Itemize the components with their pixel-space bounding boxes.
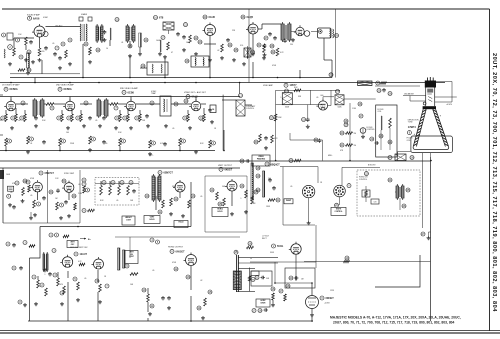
wire right tall bus: [430, 157, 432, 321]
tube V15: [60, 255, 72, 267]
wire video B+ rail: [0, 160, 431, 162]
resistor IF sub 204: [203, 114, 206, 122]
ground IF 68: [66, 126, 70, 130]
capacitor C9: [226, 38, 230, 42]
svg-text:HOLD: HOLD: [149, 219, 155, 221]
ref bubble int1: [111, 181, 115, 185]
wire V3: [258, 24, 281, 29]
svg-text:17BP4: 17BP4: [408, 125, 416, 129]
capacitor IF low a: [42, 140, 46, 144]
svg-text:SYNC SEP: SYNC SEP: [64, 173, 75, 175]
left margin stubs: [0, 95, 3, 135]
svg-text:100: 100: [66, 132, 69, 134]
ground IF 36: [34, 124, 38, 128]
resistor RD8: [147, 294, 150, 302]
focus assembly box: [376, 105, 397, 157]
ground T3: [128, 52, 142, 58]
capacitor CC2: [56, 189, 60, 193]
ref bubble rail A: [329, 73, 333, 77]
left margin cap D: [12, 266, 23, 270]
PT bottom refs: [252, 308, 268, 312]
ref bubble crt: [407, 131, 411, 135]
ground IF 212: [210, 120, 214, 124]
ref bubble IF sub 25: [20, 116, 24, 120]
ground vol: [242, 62, 246, 66]
svg-text:6W4GT: 6W4GT: [326, 297, 335, 300]
resistor IF low 90: [89, 136, 92, 144]
svg-text:220: 220: [42, 51, 45, 53]
ref bubble IF sub 128: [123, 116, 127, 120]
capacitor IF low b: [102, 140, 106, 144]
cap cluster crt: [377, 88, 392, 96]
hatch box B plus: [388, 154, 414, 161]
ref bubbles V3: [264, 36, 274, 48]
ground V1 right: [38, 58, 73, 70]
ground V1 left: [8, 58, 35, 66]
capacitor CD3: [161, 296, 165, 300]
value label 43: [268, 178, 271, 180]
ref bubble int0: [102, 181, 106, 185]
brightness pot: [282, 89, 292, 109]
svg-text:.02: .02: [217, 50, 219, 52]
value label 17: [142, 120, 146, 122]
svg-text:250: 250: [290, 44, 293, 46]
resistor R6: [89, 47, 92, 55]
bleeder dashed box: [357, 170, 420, 216]
boxed resistor bleeder 1: [362, 186, 370, 202]
label video out: [321, 95, 335, 99]
capacitor C4: [58, 56, 62, 60]
svg-text:OSC ADJ: OSC ADJ: [55, 24, 62, 27]
value label 13: [42, 120, 46, 122]
resistor RC8: [216, 192, 219, 200]
resistor R2: [13, 48, 16, 56]
horiz drive control: [358, 81, 387, 86]
capacitor CC10: [268, 178, 272, 182]
ref bubbles D left: [32, 273, 109, 295]
resistor IF sub 16: [15, 114, 18, 122]
svg-text:6AU6: 6AU6: [33, 17, 40, 20]
capacitor IF 210: [208, 108, 212, 112]
svg-text:MULL: MULL: [149, 155, 154, 157]
capacitor IF 36: [34, 116, 38, 120]
hold control 2: [174, 221, 188, 228]
wire integrator: [95, 181, 139, 186]
label V18: [320, 296, 334, 305]
value label 14: [66, 132, 69, 134]
value label 27: [298, 96, 302, 98]
CRT bell bottom: [413, 147, 449, 150]
ground IF 116: [114, 126, 118, 130]
tube V2 6AU6: [203, 23, 216, 36]
label 4 band: [79, 13, 92, 21]
value label 34: [78, 184, 80, 186]
svg-text:DRIVE: DRIVE: [261, 302, 266, 304]
svg-text:600: 600: [321, 95, 324, 97]
svg-text:6AL5: 6AL5: [192, 96, 199, 99]
value label 45: [320, 182, 323, 184]
ref bubble T2: [84, 42, 100, 52]
capacitor CC1: [8, 186, 14, 191]
svg-text:6AQ5: 6AQ5: [247, 16, 254, 19]
value label 5: [156, 40, 161, 42]
resistor IF low 28: [27, 136, 30, 144]
label row vert osc: [70, 247, 88, 249]
caption line 1: [330, 316, 461, 320]
value label 0: [18, 34, 22, 36]
svg-text:RECT: RECT: [262, 238, 267, 240]
wire video out coupling: [328, 90, 331, 105]
svg-text:6K6GT: 6K6GT: [225, 168, 233, 171]
wire audio section divider: [335, 9, 337, 78]
junction dots right rail: [275, 160, 432, 162]
tube V16: [92, 257, 104, 269]
vert osc trans small: [43, 252, 48, 272]
value label 52: [172, 262, 177, 264]
value label 7: [186, 42, 189, 44]
svg-text:CONTROL: CONTROL: [246, 108, 254, 110]
ground V18: [310, 309, 314, 317]
svg-text:WIDTH: WIDTH: [336, 209, 342, 211]
svg-text:.01: .01: [121, 42, 123, 44]
junction dot D1: [77, 226, 79, 228]
label sound IF amp: [27, 14, 49, 21]
wire bleeder: [395, 192, 400, 210]
rail D top: [250, 261, 316, 263]
resistor IF sub 140: [139, 114, 142, 122]
wire socket1 down: [307, 198, 311, 225]
resistor RB13: [340, 143, 356, 147]
value label 40: [200, 196, 202, 198]
svg-text:6SN7GT: 6SN7GT: [45, 172, 55, 175]
resistor RC1: [22, 188, 25, 196]
resistor RC3: [33, 200, 41, 208]
vert output transformer: [118, 248, 125, 270]
value label 44: [290, 186, 292, 188]
capacitor CC int: [132, 189, 136, 193]
svg-text:.05: .05: [116, 200, 118, 202]
value label 30: [340, 150, 344, 152]
value label 39: [172, 186, 177, 188]
label V19: [262, 236, 283, 249]
ref bubbles V2: [194, 36, 202, 44]
svg-text:.05: .05: [158, 192, 160, 194]
svg-text:HOLD: HOLD: [178, 222, 184, 224]
capacitor C3: [53, 52, 57, 56]
ref bubble IF sub 204: [199, 116, 203, 120]
video block label: [252, 155, 270, 166]
value label 9: [232, 30, 236, 32]
rotated model list: [491, 53, 497, 312]
svg-text:.05: .05: [316, 97, 318, 99]
value labels sync: [12, 183, 82, 200]
volume control: [240, 45, 255, 59]
value label 46: [44, 274, 45, 276]
resistor IF sub 188: [187, 114, 190, 122]
tube V3 6AQ5: [246, 22, 258, 34]
left edge hatch: [0, 170, 11, 179]
value label 25: [200, 143, 204, 145]
resistor RC int3: [127, 186, 130, 196]
ground V2: [182, 48, 198, 56]
ref bubble IF low 6: [7, 139, 11, 143]
svg-text:20UT, 20X, 70, 72, 73, 700, 70: 20UT, 20X, 70, 72, 73, 700, 701, 712, 71…: [491, 53, 497, 312]
value label 1: [52, 43, 54, 45]
svg-text:4.5MC: 4.5MC: [43, 17, 49, 19]
wire damper box: [375, 255, 420, 287]
svg-text:M: M: [252, 279, 254, 281]
resistor RC1b: [23, 179, 30, 192]
value label 56: [330, 290, 335, 292]
ground right bus: [421, 232, 431, 240]
damper filter box: [285, 268, 315, 288]
wire D drops: [68, 282, 312, 321]
CRT neck: [426, 88, 435, 107]
socket V14 damper: [334, 185, 346, 205]
label IF stage 3: [120, 87, 139, 95]
vert osc control box: [67, 241, 78, 248]
ref bubble IF low 150: [151, 141, 155, 145]
resistor RD7: [130, 273, 138, 276]
value label 16: [118, 132, 122, 134]
svg-text:6AU6: 6AU6: [209, 16, 216, 19]
ref bubble IF sub 81: [76, 116, 80, 120]
value label 48: [84, 278, 86, 280]
svg-text:10: 10: [106, 48, 108, 50]
value label 28: [316, 97, 318, 99]
ref bubbles horiz: [210, 184, 258, 206]
label IF stage 2: [56, 84, 75, 92]
ground D right: [271, 303, 275, 307]
value label 50: [130, 284, 134, 286]
svg-text:.05: .05: [200, 196, 202, 198]
resistor IF sub 81: [80, 114, 83, 122]
resistor IF sub 62: [61, 114, 64, 122]
width control: [331, 203, 346, 215]
value label 57: [149, 155, 154, 157]
wire T3: [130, 41, 140, 52]
resistor R9: [221, 43, 238, 52]
ground V2 right: [220, 56, 236, 62]
capacitor CD1: [43, 268, 47, 272]
value label 51: [152, 270, 154, 272]
svg-text:HORIZ: HORIZ: [261, 300, 266, 302]
svg-text:.05: .05: [290, 186, 292, 188]
contrast control: [236, 83, 255, 117]
value label 4: [121, 42, 123, 44]
resistor RBx: [254, 134, 278, 150]
ref bubbles D mid: [125, 264, 212, 310]
caption line 2: [333, 321, 455, 325]
capacitor C7: [176, 32, 180, 36]
speaker SP1: [318, 28, 332, 38]
capacitor CC11: [272, 186, 276, 190]
flyback transformer primary: [251, 163, 253, 200]
label 45mc trap: [151, 91, 157, 95]
value label 53: [200, 280, 202, 282]
label damper: [347, 184, 351, 188]
ref bubble IF low 180: [181, 139, 185, 143]
value label 23: [105, 143, 107, 145]
resistor RD9: [204, 298, 207, 306]
ref bubble video block: [289, 159, 301, 163]
resistor IF low 210: [209, 140, 212, 148]
resistor R10: [263, 44, 266, 52]
power transformer winding: [233, 271, 241, 290]
resistor RD4: [63, 286, 66, 294]
wire video mid rail: [276, 104, 322, 106]
junction dots IF: [5, 82, 240, 152]
CRT anode lead right: [435, 97, 457, 106]
resistor RC4: [56, 202, 64, 210]
focus pot: [335, 90, 344, 109]
tube V5 IF amp: [63, 99, 75, 111]
label audio det: [241, 15, 254, 19]
resistor R5: [18, 68, 31, 72]
ref bubbles V1 right: [55, 38, 72, 50]
label vert osc D: [49, 233, 91, 241]
resistor RC int0: [100, 186, 103, 196]
resistor RC4b: [74, 203, 77, 210]
value label 8: [217, 50, 219, 52]
svg-text:.05: .05: [18, 120, 20, 122]
coil L4: [160, 40, 161, 52]
wire D left: [38, 270, 98, 282]
cap audio 2: [283, 38, 295, 43]
resistor RB11: [269, 114, 282, 121]
ground D mid: [148, 306, 205, 320]
label flyback low: [252, 203, 271, 208]
svg-text:470: 470: [88, 52, 91, 54]
wire chassis box top jog: [40, 226, 191, 228]
label vert osc: [158, 171, 173, 175]
svg-text:470: 470: [60, 284, 63, 286]
resistor IF low 120: [119, 138, 122, 146]
ref bubbles IF row: [21, 99, 188, 110]
wire socket2: [342, 167, 380, 185]
resistor RC6: [170, 198, 173, 206]
wire vert osc: [156, 182, 191, 227]
vert osc transformer: [152, 174, 161, 202]
tube V1 6AU6: [32, 24, 48, 37]
ground IF 131: [129, 126, 133, 130]
svg-text:20U7, 800, 70, 71, 72, 700, 70: 20U7, 800, 70, 71, 72, 700, 708, 712, 71…: [333, 321, 455, 325]
value label 26: [280, 97, 281, 99]
label sync sep: [64, 173, 75, 175]
det box: [163, 22, 174, 34]
svg-text:DAMP: DAMP: [286, 199, 292, 202]
CRT anode lead top: [436, 82, 452, 98]
wire IF strip lower rail: [0, 150, 215, 152]
wire V2: [204, 36, 216, 62]
filter box 2: [251, 271, 272, 286]
ground IF 166: [164, 124, 168, 128]
svg-text:HOLD: HOLD: [217, 211, 223, 213]
ref bubble IF low 60: [61, 139, 65, 143]
ref bubble IF sub 16: [11, 116, 15, 120]
svg-text:.01: .01: [30, 143, 32, 145]
IF can T6: [33, 98, 44, 118]
wire horiz osc: [205, 176, 247, 232]
ground D left: [34, 298, 102, 306]
svg-text:5U4G: 5U4G: [277, 245, 283, 248]
CRT funnel: [413, 109, 448, 147]
value label 36: [116, 200, 118, 202]
resistor RD11: [284, 294, 287, 301]
svg-text:2ND VIDEO IF AMP: 2ND VIDEO IF AMP: [56, 84, 75, 87]
value label 31: [10, 192, 12, 194]
value label 32: [30, 178, 35, 180]
ref bubble int2: [120, 181, 124, 185]
label video det: [184, 91, 207, 99]
value label 49: [104, 276, 107, 278]
value label 22: [70, 143, 75, 145]
ground outside box: [18, 300, 27, 307]
svg-text:TRAP: TRAP: [151, 92, 157, 95]
resistor RD2: [45, 288, 48, 296]
ref bubbles V1 left: [16, 38, 32, 59]
horiz hold control: [212, 208, 228, 217]
wire chassis box left jog: [30, 227, 41, 259]
capacitor C10: [268, 32, 272, 36]
resistor RD1: [37, 280, 40, 288]
wire band A low rail: [10, 73, 80, 75]
svg-text:MULL: MULL: [328, 155, 333, 157]
resistor IF low 150: [149, 140, 152, 148]
boxed label left: [284, 199, 293, 204]
svg-text:COIL: COIL: [378, 111, 382, 113]
PT top ref: [247, 242, 254, 249]
output transformer T5: [330, 29, 339, 38]
cap right: [370, 137, 379, 145]
svg-text:4 BAND: 4 BAND: [81, 13, 88, 16]
wire B+ rail band A: [10, 77, 332, 79]
tube V7 6AL5 det: [189, 99, 201, 111]
IF can T7: [97, 98, 108, 118]
IF can T4: [281, 22, 291, 42]
value label 15: [95, 120, 97, 122]
wire IF verticals: [6, 108, 204, 114]
capacitor CC5: [42, 196, 46, 200]
label osc adj: [55, 24, 62, 27]
cap mid right: [314, 138, 321, 143]
power transformer core: [234, 250, 238, 292]
tube V10 sync sep: [62, 181, 74, 193]
ground IF 84: [82, 124, 86, 128]
boxed resistor bleeder 2: [371, 199, 379, 204]
ref bubbles bleeder: [388, 178, 410, 208]
svg-text:6T8: 6T8: [159, 17, 164, 20]
resistor RC int1: [109, 186, 112, 196]
value label 55: [270, 252, 275, 254]
value label 54: [250, 258, 253, 260]
resistor RC12: [268, 198, 280, 202]
resistor IF low 180: [179, 138, 182, 146]
capacitor C2: [44, 46, 48, 50]
capacitor CD2: [48, 272, 52, 276]
capacitor CD4: [167, 296, 171, 300]
capacitor IF 104: [102, 116, 106, 120]
discr transformer: [140, 62, 168, 75]
value label 10: [262, 52, 265, 54]
wire PT secondary: [236, 258, 278, 292]
b boost label: [368, 165, 376, 167]
svg-text:COIL: COIL: [407, 140, 411, 142]
ground det: [158, 52, 167, 59]
svg-text:6SN7GT: 6SN7GT: [164, 172, 174, 175]
bleeder text: [359, 177, 368, 181]
capacitor C11: [273, 36, 277, 40]
